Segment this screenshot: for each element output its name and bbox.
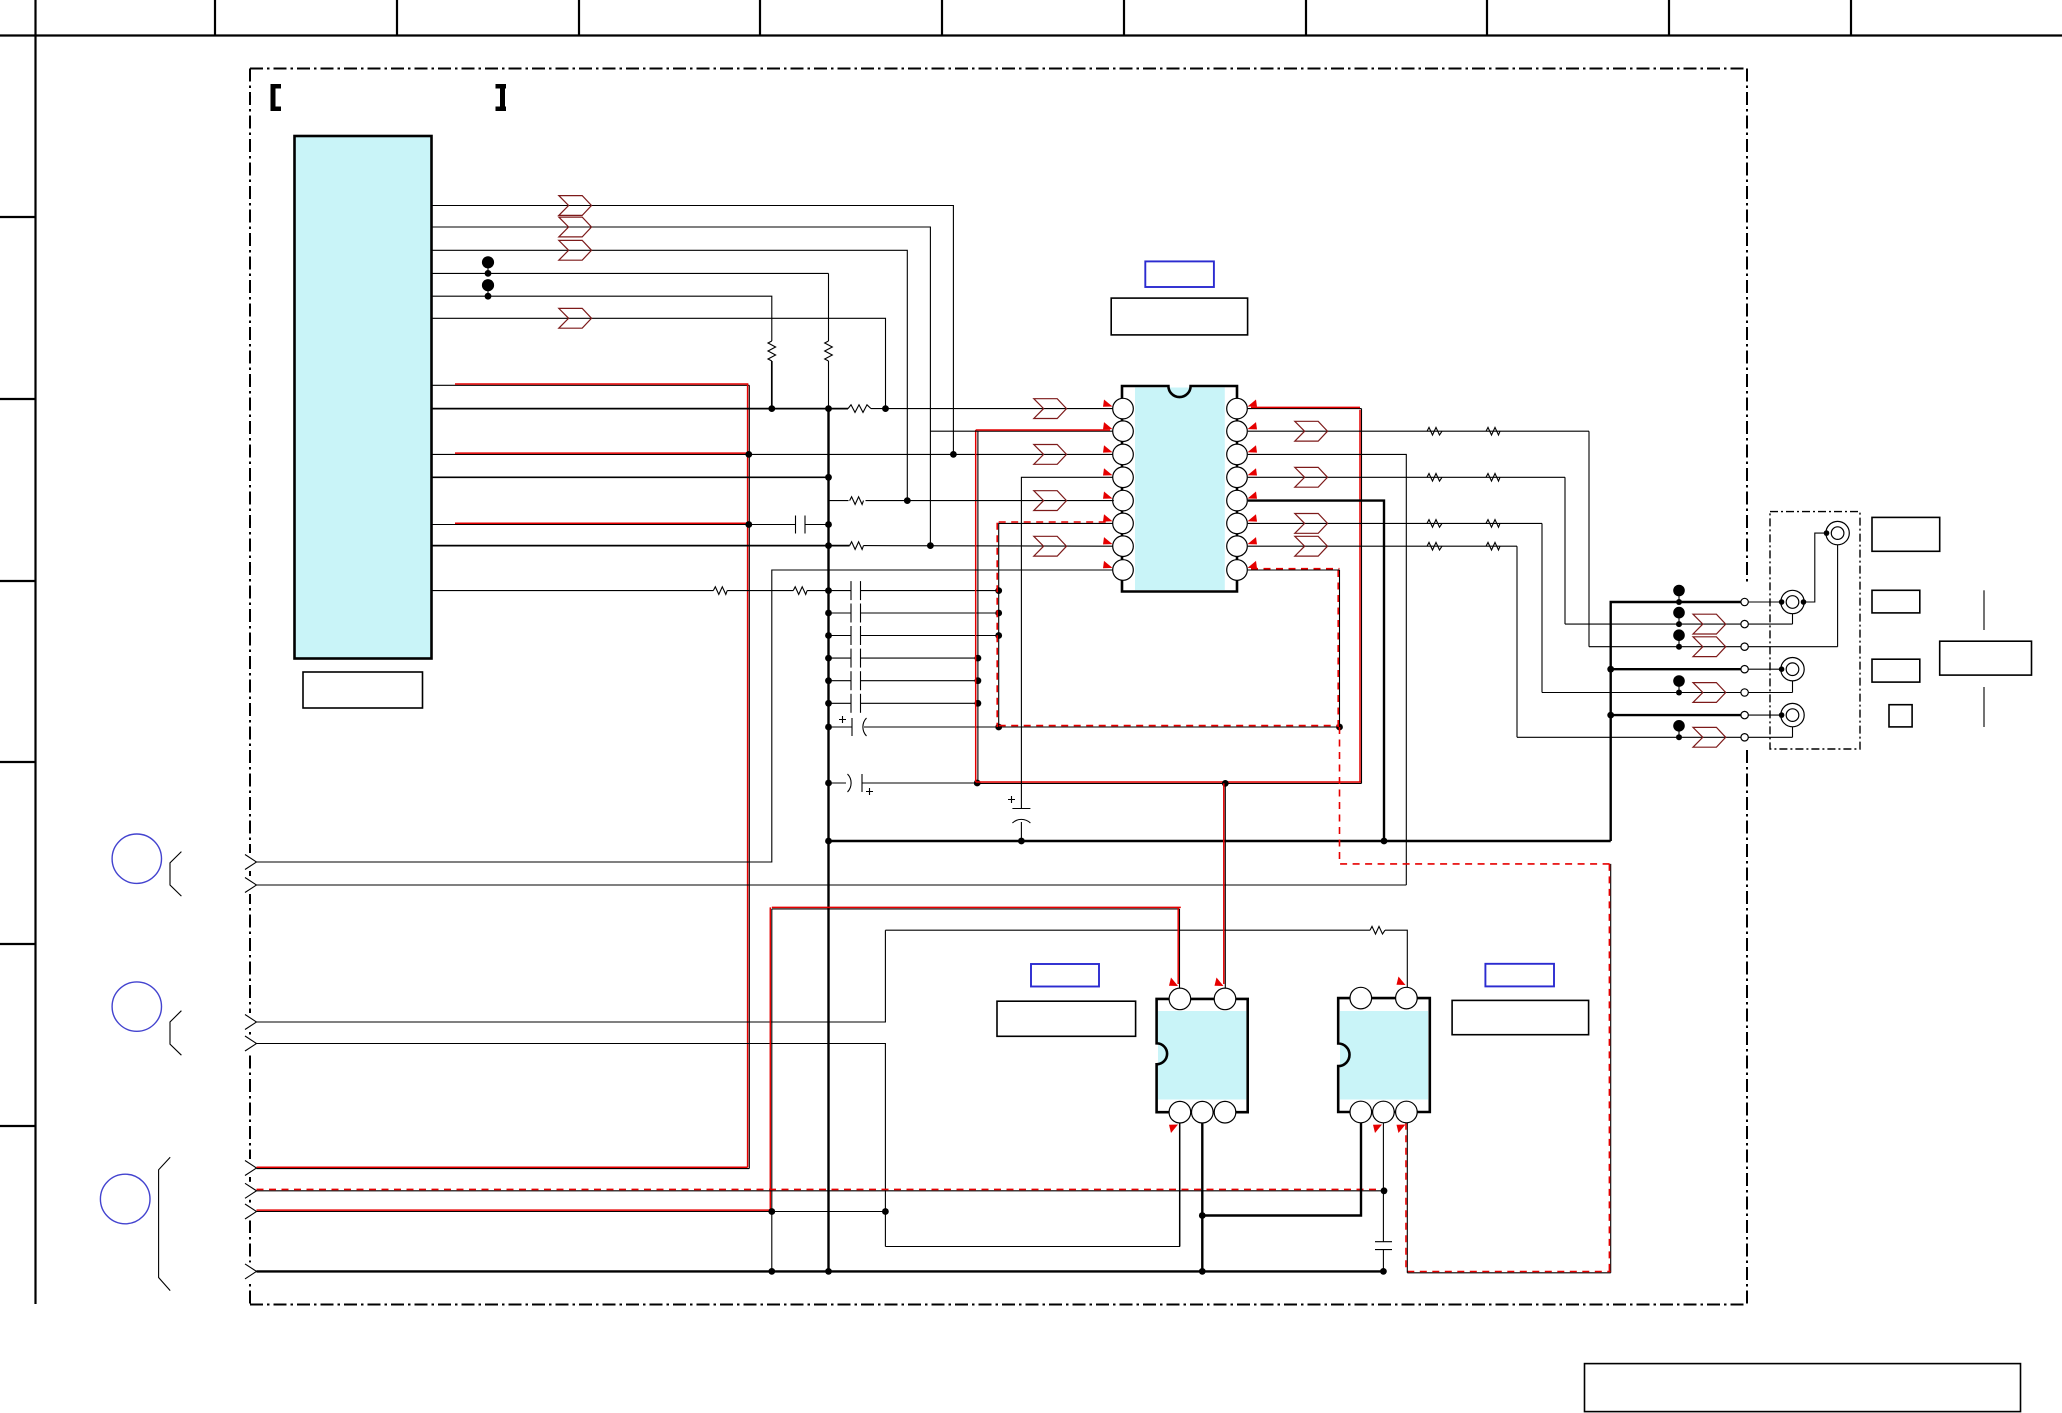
pointer triangle into IC4 bottom pad2 <box>1373 1125 1382 1134</box>
red dashed overlay on C-b row <box>999 725 1340 727</box>
node dot red net2 / IC3 drop <box>1222 780 1229 787</box>
out-arrow chevron c2 <box>1693 614 1726 634</box>
IC3 pads <box>1169 988 1236 1123</box>
drop vertical to connector row c3 <box>1588 431 1590 647</box>
resistor R-e on p13 <box>793 587 807 595</box>
resistor R-p on y930 <box>1370 926 1385 934</box>
node dot r3 / net3 <box>768 1208 775 1215</box>
pointer triangle into IC4 bottom pad3 <box>1397 1125 1406 1134</box>
out-arrow chevron q2 <box>1295 421 1328 441</box>
node dot p11/bus <box>825 521 832 528</box>
input arrow row a3 <box>245 1015 257 1030</box>
connector row c1 thick <box>1611 602 1741 841</box>
resistor R-h <box>1427 427 1442 435</box>
capacitor C-e <box>1375 1241 1392 1243</box>
input arrow row r3 <box>245 1204 257 1219</box>
node dot p8/R-a <box>768 405 775 412</box>
capacitor bank row 3 <box>825 626 1002 645</box>
wire IC2 right pad4 row <box>1248 476 1565 478</box>
test point dot stack on p4 <box>482 256 494 268</box>
connector row c7 <box>1517 736 1741 738</box>
blue circle callout 3 <box>100 1174 150 1224</box>
blue circle callout 1 <box>112 834 161 883</box>
red net2 wire into IC2 pad2 <box>978 430 1114 432</box>
node dot r4 / net3 <box>768 1268 775 1275</box>
wire pin row p1 <box>432 206 954 455</box>
main vertical bus thin upper part <box>828 273 830 341</box>
capacitor bank row 5 <box>825 671 981 690</box>
pointer triangle into IC3 top pad2 <box>1215 978 1224 987</box>
wire row a1 <box>257 861 772 863</box>
pointer triangle into IC3 bottom pad1 <box>1169 1125 1178 1134</box>
resistor R-d on p13 <box>713 587 727 595</box>
red net2 horizontal pair <box>978 782 1362 784</box>
thick link wire IC3-IC4 <box>1202 1123 1361 1216</box>
outer board dash-dot boundary box <box>250 69 1747 1305</box>
vertical from pad4 corner <box>1021 477 1123 783</box>
connector label box 3 <box>1872 659 1920 682</box>
wire row a2 long <box>257 884 1407 886</box>
input arrow row r1 <box>245 1161 257 1176</box>
IC4 body <box>1338 998 1430 1112</box>
connector jack junction dots <box>1779 530 1830 718</box>
wire IC2 right pad7 row <box>1248 545 1517 547</box>
wire pin row p6 <box>432 318 886 408</box>
page frame left border line <box>34 0 36 1304</box>
input arrow row a1 <box>245 855 257 870</box>
wire pin row p10 <box>432 476 829 478</box>
IC4 label box <box>1452 1000 1589 1034</box>
wire pin row p4 <box>432 272 829 274</box>
red overlay row r3 <box>257 1209 771 1211</box>
connector row c4 thick <box>1611 668 1741 670</box>
IC2 digital interface chip body <box>1122 386 1237 592</box>
wire p12 to IC2 pad7 <box>864 545 1114 548</box>
connector row c2 <box>1565 623 1741 625</box>
red net3 drop into IC3 top pad1 <box>1179 909 1181 988</box>
wire pin row p7 black <box>432 384 750 386</box>
connector label box 4 <box>1889 705 1912 727</box>
input arrow row r2 <box>245 1183 257 1198</box>
capacitor bank row 6 <box>825 694 981 713</box>
connector label box 2 <box>1872 590 1920 613</box>
arrow gaps on boundary <box>243 853 258 1280</box>
IC3 label box <box>997 1001 1136 1036</box>
drop vertical to connector row c5 <box>1541 523 1543 692</box>
red dashed loop right side <box>1340 727 1611 864</box>
node dot p11/red net <box>745 521 752 528</box>
wire loop row y930 <box>885 929 1370 931</box>
page frame top border line <box>0 34 2062 36</box>
resistor R-j <box>1427 474 1442 482</box>
out-arrow chevron p1 <box>559 196 592 216</box>
resistor R-a vertical on p5 net <box>768 341 776 361</box>
IC2 left pads <box>1113 398 1134 580</box>
node dot p9/red net <box>745 451 752 458</box>
pointer triangle into IC3 top pad1 <box>1169 978 1178 987</box>
out-arrow chevron q7 <box>1295 536 1328 556</box>
wire pin row p11 <box>432 524 796 526</box>
IC1 label box <box>303 672 423 708</box>
input arrow row a4 <box>245 1036 257 1051</box>
IC2 left pad pointer triangles <box>1103 400 1113 569</box>
out-arrow chevron q6 <box>1295 514 1328 534</box>
red net2 wire from IC2 right pad1 <box>1248 408 1362 410</box>
IC2 right pad pointer triangles <box>1248 400 1258 569</box>
connector RCA ring jacks <box>1781 521 1850 726</box>
wire pin row p13 <box>432 590 714 592</box>
node dot p8/bus <box>825 405 832 412</box>
out-arrow chevron into IC2 pad3 <box>1034 445 1067 465</box>
resistor R-c on p12 <box>850 542 864 550</box>
wire pin row p12 <box>432 545 850 547</box>
resistor R-b on p8 <box>848 405 871 413</box>
IC3 bottom pad1 wire <box>1179 1123 1181 1247</box>
connector big label box <box>1940 641 2032 675</box>
input arrow row r4 <box>245 1264 257 1279</box>
out-arrow chevron into IC2 pad7 <box>1034 536 1067 556</box>
IC2 blue label box <box>1145 261 1214 287</box>
connector pin dot stacks <box>1673 585 1685 741</box>
header opening bracket <box>271 84 282 111</box>
node dot p8/p6 <box>882 405 889 412</box>
resistor R-o <box>1486 542 1500 550</box>
connector label box 1 <box>1872 517 1940 551</box>
out-arrow chevron into IC2 pad1 <box>1034 399 1067 419</box>
node dot IC3 pad2 / thick link <box>1199 1212 1206 1219</box>
capacitor C-a on p11 <box>795 516 797 534</box>
blue circle callout 2 <box>112 982 161 1031</box>
wire p8 thin segment to IC2 pad 1 <box>871 408 1114 410</box>
connector row c6 thick <box>1611 714 1741 716</box>
out-arrow chevron into IC2 pad5 <box>1034 491 1067 511</box>
wire p13 to bus <box>807 590 828 592</box>
out-arrow chevron q4 <box>1295 467 1328 487</box>
thick ground bus horizontal <box>829 840 1611 842</box>
IC2 label box <box>1111 298 1247 335</box>
wire IC2 right pad3 row <box>1248 454 1407 885</box>
wire pin row p5 <box>432 296 772 341</box>
header closing bracket <box>496 84 507 111</box>
wire pad8 row left part <box>256 570 1114 862</box>
capacitor bank row 4 <box>825 649 981 668</box>
wire row a3 <box>257 930 886 1022</box>
red dashed on rect right edge <box>1337 570 1339 727</box>
wire loop row y1246 <box>885 1123 1179 1247</box>
red highlight on p7 <box>455 384 748 1167</box>
wire pin row p2 <box>432 227 931 546</box>
red net2 right vertical pair <box>1361 409 1363 784</box>
red highlight on p11 <box>455 522 748 524</box>
out-arrow chevron p2 <box>559 217 592 237</box>
red net3 left vertical pair <box>771 909 773 1272</box>
wire y930 into IC4 top pad2 <box>1385 930 1407 987</box>
resistor R-g on pad5 row <box>849 494 866 507</box>
connector separator line upper <box>1983 590 1985 630</box>
red net4 drop into IC3 top pad2 <box>1224 783 1226 988</box>
sub-circuit rectangle right edge <box>1339 570 1341 727</box>
red net3 horizontal pair y908 <box>772 908 1180 910</box>
electrolytic capacitor C-c row <box>825 774 981 795</box>
resistor R-m <box>1486 520 1500 528</box>
main vertical bus thick <box>827 409 829 1272</box>
page frame left ticks <box>0 217 36 1126</box>
red net vertical black companion <box>748 385 750 1168</box>
red net2 vertical pair <box>977 431 979 783</box>
out-arrow chevron c7 <box>1693 727 1726 747</box>
wire from IC2 pad8 right <box>1248 569 1340 571</box>
capacitor bank row 2 <box>825 604 1002 623</box>
wire IC2 pad5 row from left <box>829 500 1114 502</box>
out-arrow chevron c5 <box>1693 683 1726 703</box>
node dot r3 / loop <box>882 1208 889 1215</box>
resistor R-l <box>1427 520 1442 528</box>
IC2 right pads <box>1227 398 1248 580</box>
pointer triangle into IC4 top pad2 <box>1397 977 1406 986</box>
wire IC2 right pad5 thick <box>1248 501 1384 841</box>
bracket callout 3 <box>159 1157 171 1290</box>
wire from R-a down to node on p8 <box>771 361 773 409</box>
node dot p12/bus <box>825 542 832 549</box>
IC4 blue label box <box>1485 964 1554 987</box>
connector dash-dot box <box>1770 512 1860 749</box>
out-arrow chevron c3 <box>1693 637 1726 657</box>
wire pin row p3 <box>432 250 908 500</box>
wire pin row p9 <box>432 453 1114 455</box>
resistor R-i <box>1486 427 1500 435</box>
connector open pin circles <box>1741 598 1748 741</box>
IC4 bottom pad2 wire with C-e <box>1382 1123 1384 1242</box>
wire IC2 pad2 row from left <box>930 430 978 432</box>
wire IC2 right pad2 row <box>1248 430 1589 432</box>
bottom-right title box <box>1585 1364 2021 1412</box>
IC3 blue label box <box>1031 964 1099 987</box>
bracket callout 1 <box>170 852 181 897</box>
wire p13 middle segment <box>727 590 793 592</box>
input arrow row a2 <box>245 878 257 893</box>
wire row r2 black <box>257 1190 1385 1192</box>
wire row a4 <box>257 1044 886 1247</box>
red overlay row r1 <box>257 1166 748 1168</box>
wire row r3 black <box>257 1211 886 1213</box>
node dot p9/p1 <box>950 451 957 458</box>
IC4 pads <box>1350 987 1417 1122</box>
red highlight on p9 <box>455 452 748 454</box>
connector separator line lower <box>1983 687 1985 727</box>
node dot r4 / bus <box>825 1268 832 1275</box>
test point dot stack on p5 <box>482 279 494 291</box>
main vertical bus upper segment <box>828 361 830 409</box>
page frame top ticks <box>215 0 1851 36</box>
wire pin row p8 thick segment <box>432 408 849 410</box>
IC3 body <box>1157 999 1248 1112</box>
electrolytic capacitor C-b row <box>825 716 1343 736</box>
red dashed + black loop down right <box>1610 864 1612 1273</box>
node dot p10/bus <box>825 474 832 481</box>
connector row c5 <box>1542 692 1741 694</box>
electrolytic capacitor C-d vertical <box>1008 783 1030 844</box>
node dot p13/bus <box>825 587 832 594</box>
drop vertical to connector row c7 <box>1516 546 1518 737</box>
IC1 main processor block <box>295 136 432 659</box>
out-arrow chevron p3 <box>559 240 592 260</box>
red dashed net wire into IC2 pad6 <box>999 522 1114 524</box>
wire row r4 thick ground <box>257 1270 1385 1272</box>
wire row r1 black <box>257 1168 750 1170</box>
red dashed net vertical <box>998 523 1000 727</box>
resistor R-n <box>1427 542 1442 550</box>
drop vertical to connector row c2 <box>1564 477 1566 624</box>
resistor R-f vertical on bus <box>825 341 833 361</box>
wire IC2 right pad6 row <box>1248 522 1542 524</box>
capacitor bank row 1 <box>829 581 1003 600</box>
connector row c3 <box>1589 646 1741 648</box>
node dot r2 / C-e <box>1381 1187 1388 1194</box>
resistor R-k <box>1486 474 1500 482</box>
bracket callout 2 <box>170 1011 181 1055</box>
connector internal wires <box>1748 533 1837 737</box>
out-arrow chevron p6 <box>559 308 592 328</box>
IC3 bottom pad2 thick wire <box>1201 1123 1203 1271</box>
node dot p12/p2 <box>927 542 934 549</box>
node dot r4 / IC3 pad <box>1199 1268 1206 1275</box>
red dashed overlay row r2 <box>257 1188 1385 1190</box>
